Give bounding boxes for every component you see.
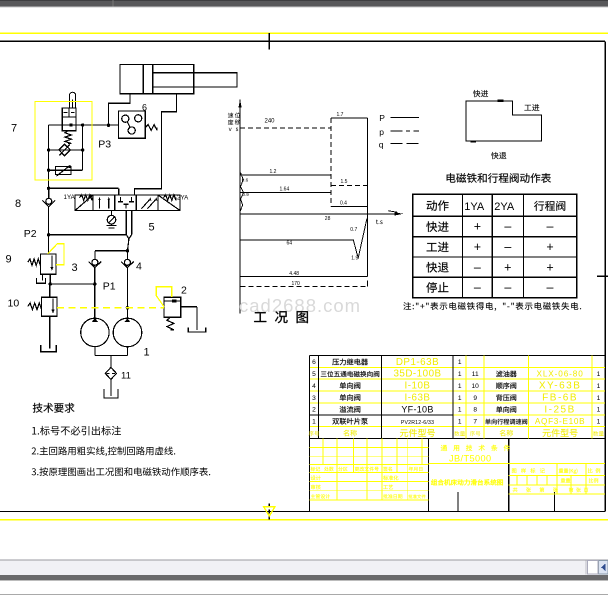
trim triangle bottom <box>264 507 275 516</box>
svg-text:3: 3 <box>72 262 78 274</box>
bottom dashed return line <box>241 281 368 287</box>
svg-text:1: 1 <box>597 419 601 426</box>
action table row 1 <box>426 220 553 234</box>
svg-text:–: – <box>547 281 554 295</box>
wire cylinder left port to node P3 <box>109 94 131 126</box>
svg-text:P1: P1 <box>103 281 116 293</box>
svg-text:+: + <box>474 240 481 254</box>
svg-text:1: 1 <box>458 371 462 378</box>
svg-text:I-63B: I-63B <box>405 392 431 403</box>
back-pressure valve 9 (FB-6B) <box>28 235 56 284</box>
check valve 3 (I-63B) <box>89 259 102 267</box>
title block drawing name <box>431 479 503 485</box>
label t/s <box>376 220 383 224</box>
relief valve 10 (XY-63B) <box>28 284 57 348</box>
title block signature labels <box>311 467 426 499</box>
svg-text:–: – <box>547 220 554 234</box>
wire valve 7 left rail <box>48 125 50 188</box>
svg-text:XLX-06-80: XLX-06-80 <box>536 370 583 379</box>
wire pump head run <box>95 249 129 259</box>
pump 1 right circle <box>113 318 142 347</box>
node P3 junction <box>69 123 110 127</box>
svg-text:5: 5 <box>149 222 155 234</box>
svg-text:11: 11 <box>121 371 131 382</box>
svg-text:+: + <box>546 240 553 254</box>
wire cylinder right port to valve 5 B port <box>135 94 177 195</box>
svg-text:1: 1 <box>597 383 601 390</box>
svg-text:1.2: 1.2 <box>270 169 277 175</box>
wire filter to tank <box>110 379 112 396</box>
svg-text:1YA: 1YA <box>464 201 485 213</box>
legend P solid <box>379 113 419 123</box>
svg-text:FB-6B: FB-6B <box>542 392 578 403</box>
pilot hook valve 2 (yellow) <box>156 287 172 307</box>
pump 1 left circle <box>81 318 109 347</box>
svg-text:–: – <box>504 281 511 295</box>
pressure level line 1 <box>240 174 331 176</box>
svg-text:2YA: 2YA <box>494 201 515 213</box>
valve 7 throttle <box>56 165 72 176</box>
action table note <box>403 302 581 311</box>
power rectangle <box>331 118 368 276</box>
svg-text:9: 9 <box>473 395 477 402</box>
pilot hook valve 9 (yellow) <box>48 244 64 265</box>
svg-text:2: 2 <box>181 285 187 297</box>
svg-text:7: 7 <box>473 419 477 426</box>
svg-text:P3: P3 <box>98 139 111 151</box>
window top bar <box>0 0 608 8</box>
valve 7 spring <box>65 131 71 144</box>
svg-text:170: 170 <box>292 281 301 287</box>
parts table right rows <box>472 370 601 426</box>
svg-text:64: 64 <box>287 240 293 246</box>
valve 7 check throttle diamond <box>59 144 71 156</box>
svg-text:1: 1 <box>597 395 601 402</box>
svg-text:+: + <box>474 220 481 234</box>
pressure level line 2 <box>240 192 331 194</box>
yellow highlight box around valve 7 <box>35 102 92 181</box>
cylinder (hydraulic actuator) <box>120 64 237 93</box>
action table title <box>447 173 551 183</box>
flow curve q <box>240 219 367 258</box>
parts table grid <box>310 356 606 439</box>
tech note 3 <box>32 467 211 476</box>
svg-text:P: P <box>379 113 385 123</box>
svg-text:2: 2 <box>312 407 316 414</box>
legend q dashed <box>379 140 419 150</box>
wire valve 7 right rail <box>82 125 84 170</box>
tech note 2 <box>32 446 176 456</box>
svg-text:28: 28 <box>325 216 331 222</box>
valve 5 solenoid directional valve (35D-100B) <box>75 195 180 211</box>
svg-text:1: 1 <box>458 395 462 402</box>
frame top <box>0 40 605 42</box>
svg-text:4.48: 4.48 <box>289 271 299 277</box>
wire P3 line (valve7 to relay 6) <box>49 124 119 126</box>
page divider line <box>0 594 608 596</box>
paper edge bottom (yellow) <box>0 519 608 521</box>
svg-text:4: 4 <box>136 261 142 273</box>
tank under valve 10 <box>41 345 56 352</box>
svg-text:I-25B: I-25B <box>544 404 575 415</box>
valve 7 travel valve body <box>62 108 76 131</box>
tank under valve 9 <box>36 278 45 283</box>
wire valve 7 bottom rung <box>47 169 83 172</box>
pressure spikes near axis <box>240 173 243 212</box>
title block black dividers <box>310 439 555 512</box>
svg-text:+: + <box>546 260 553 274</box>
paper edge top (yellow) <box>0 32 608 34</box>
action table grid <box>413 194 577 297</box>
label work feed <box>524 104 539 111</box>
svg-text:DP1-63B: DP1-63B <box>396 357 439 368</box>
svg-text:6: 6 <box>142 103 147 113</box>
label rapid retract <box>491 152 506 159</box>
technical requirements heading <box>33 403 75 413</box>
svg-text:–: – <box>504 240 511 254</box>
wire A port run <box>47 187 119 196</box>
svg-text:4: 4 <box>312 383 316 390</box>
svg-text:0.4: 0.4 <box>340 200 347 206</box>
svg-text:JB/T5000: JB/T5000 <box>449 453 492 463</box>
svg-text:1: 1 <box>458 359 462 366</box>
svg-text:–: – <box>474 260 481 274</box>
flow low level line <box>240 276 367 278</box>
centering mark top <box>268 33 270 49</box>
check valve 8 (I-25B) <box>43 188 56 235</box>
svg-text:1: 1 <box>458 383 462 390</box>
label rapid advance <box>473 90 488 97</box>
action table row 2 <box>427 240 554 254</box>
svg-text:0.6: 0.6 <box>242 177 249 182</box>
valve 7 roller plunger <box>70 92 76 107</box>
svg-text:5: 5 <box>312 371 316 378</box>
svg-text:11: 11 <box>472 371 479 378</box>
svg-text:9: 9 <box>6 254 12 266</box>
svg-text:1.5: 1.5 <box>341 179 348 185</box>
svg-text:1: 1 <box>312 419 316 426</box>
svg-text:1: 1 <box>597 371 601 378</box>
centering mark right <box>597 275 608 277</box>
svg-text:q: q <box>379 140 384 150</box>
title block middle: general spec <box>429 445 510 464</box>
svg-text:0.9: 0.9 <box>242 192 249 197</box>
wire P1 node run <box>49 268 97 319</box>
frame right edge <box>604 41 606 511</box>
pilot line valve 10 to valve 2 (yellow dashed) <box>57 307 164 309</box>
dashed level inside rectangle <box>331 184 368 186</box>
cycle chart axis caption <box>228 112 241 131</box>
svg-text:240: 240 <box>265 118 276 124</box>
svg-text:–: – <box>474 281 481 295</box>
svg-text:1.7: 1.7 <box>337 112 344 118</box>
filter 11 (XLX-06-80) <box>105 367 116 379</box>
pilot drain valve under valve 5 <box>106 211 116 228</box>
cycle chart vertical axis <box>239 100 242 314</box>
svg-text:10: 10 <box>8 298 20 310</box>
curve p rapid-advance dashed <box>240 127 331 129</box>
svg-text:PV2R12-6/33: PV2R12-6/33 <box>401 420 434 426</box>
svg-text:3: 3 <box>312 395 316 402</box>
legend p dash-dot <box>379 127 419 137</box>
window bottom bar <box>0 575 608 581</box>
feed path diagram outline <box>466 100 541 143</box>
pressure relay 6 (DP1-63B) <box>118 111 157 138</box>
svg-text:0.7: 0.7 <box>350 227 357 233</box>
main suction tank <box>104 389 118 398</box>
svg-text:p: p <box>379 127 384 137</box>
bottom scrollbar <box>0 559 608 575</box>
wire pump suction <box>95 347 128 368</box>
parts table header row <box>309 429 604 437</box>
svg-text:1YA: 1YA <box>64 194 76 201</box>
chart title gongkuangtu <box>254 311 308 323</box>
svg-text:10: 10 <box>472 383 480 390</box>
svg-text:6: 6 <box>312 359 316 366</box>
svg-text:1: 1 <box>597 407 601 414</box>
tech note 1 <box>32 426 121 435</box>
svg-text:AQF3-E10B: AQF3-E10B <box>535 417 585 426</box>
title block right labels <box>512 468 600 492</box>
check valve 4 (I-10B) <box>121 259 134 267</box>
svg-text:1.64: 1.64 <box>280 187 290 193</box>
action table row 4 <box>426 281 553 295</box>
svg-text:–: – <box>504 220 511 234</box>
relief valve 2 (YF-10B) <box>164 297 197 330</box>
svg-text:8: 8 <box>473 407 477 414</box>
svg-text:I-10B: I-10B <box>405 381 431 392</box>
svg-text:1: 1 <box>458 419 462 426</box>
title block signature grid (yellow) <box>310 439 429 500</box>
cycle chart time axis <box>240 211 403 216</box>
frame bottom <box>0 510 605 512</box>
svg-text:2YA: 2YA <box>177 194 189 201</box>
title block right grid <box>509 464 605 494</box>
wire valve 5 bottom ports <box>126 211 132 251</box>
svg-text:8: 8 <box>15 198 21 210</box>
wire P2 tank run <box>47 233 126 236</box>
action table header <box>427 200 566 213</box>
parts table left rows <box>312 357 462 426</box>
svg-text:YF-10B: YF-10B <box>401 404 433 414</box>
svg-text:+: + <box>504 260 511 274</box>
svg-text:1: 1 <box>458 407 462 414</box>
wire pump 2 output <box>126 268 129 319</box>
wire valve 7 middle rung <box>47 148 84 151</box>
svg-text:35D-100B: 35D-100B <box>393 369 441 380</box>
svg-text:XY-63B: XY-63B <box>539 381 582 392</box>
svg-text:7: 7 <box>11 123 17 135</box>
centering mark bottom <box>268 504 270 520</box>
tank for valve 2 <box>188 328 206 332</box>
action table row 3 <box>426 260 553 274</box>
svg-text:P2: P2 <box>24 228 37 240</box>
svg-text:1.9: 1.9 <box>351 256 358 262</box>
svg-text:1: 1 <box>144 347 150 359</box>
